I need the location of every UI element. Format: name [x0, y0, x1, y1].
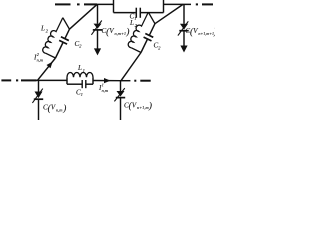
svg-text:1: 1 — [81, 92, 83, 97]
svg-text:): ) — [62, 103, 66, 113]
svg-text:): ) — [125, 27, 129, 37]
svg-text:1: 1 — [134, 16, 136, 21]
svg-text:): ) — [213, 27, 215, 37]
svg-text:): ) — [148, 101, 152, 111]
svg-text:L: L — [40, 25, 45, 33]
svg-text:1: 1 — [83, 68, 85, 73]
svg-text:L: L — [77, 64, 82, 72]
svg-text:1: 1 — [102, 83, 104, 88]
svg-text:L: L — [129, 19, 134, 27]
